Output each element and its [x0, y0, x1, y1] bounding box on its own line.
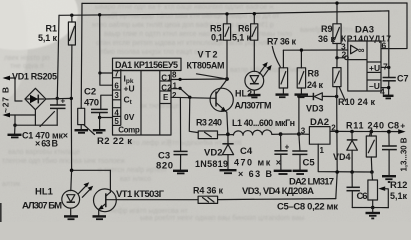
svg-text:DA1 КР1156ЕУ5: DA1 КР1156ЕУ5 — [115, 60, 178, 70]
wire DA1 pin 6 — [100, 73, 113, 85]
wire VD3 node vertical — [298, 96, 300, 134]
resistor R11 — [366, 132, 376, 172]
ground under C8 — [382, 176, 396, 182]
node R10 bottom rail — [335, 170, 339, 174]
svg-text:3: 3 — [114, 91, 119, 100]
svg-text:C6: C6 — [357, 191, 368, 202]
ground under VD2 — [220, 170, 237, 173]
inductor L1 — [233, 130, 280, 136]
svg-text:вало ваprobы ктнлаце: вало ваprobы ктнлаце — [8, 149, 80, 156]
output arrow — [398, 129, 405, 134]
node pin8 tap — [179, 78, 182, 81]
input arrow AC1 — [3, 76, 11, 81]
ground under R7 — [276, 95, 289, 98]
node R11 top — [370, 130, 374, 134]
svg-text:нефр иráтп ыдоercва нт: нефр иráтп ыдоercва нт — [110, 208, 189, 215]
resistor R2 — [78, 108, 85, 129]
svg-text:VT1 КТ503Г: VT1 КТ503Г — [116, 189, 165, 200]
svg-text:L1 40...600 мкГн: L1 40...600 мкГн — [232, 118, 295, 128]
transistor VT2 — [210, 80, 233, 135]
wire R3 to L1 node — [218, 134, 234, 136]
svg-text:С5–С8 0,22 мк: С5–С8 0,22 мк — [277, 202, 338, 213]
svg-text:R12: R12 — [390, 180, 407, 191]
bright scan corner — [0, 0, 78, 50]
svg-text:C1: C1 — [161, 73, 172, 82]
resistor R7 — [279, 50, 287, 94]
svg-text:2: 2 — [342, 50, 347, 60]
svg-text:+: + — [61, 97, 66, 106]
svg-text:E: E — [163, 93, 169, 102]
node R1 top — [70, 14, 73, 17]
node R12 bottom — [371, 206, 375, 210]
ground under R2 — [75, 130, 89, 133]
resistor R9 — [333, 3, 341, 58]
wire C1 minus horizontal — [15, 124, 57, 126]
ground under C3 — [173, 171, 188, 174]
svg-text:× 63 В: × 63 В — [35, 139, 59, 149]
resistor R4 — [198, 196, 218, 203]
diode VD3 — [313, 93, 336, 100]
node C5 DA2 tap — [297, 132, 301, 136]
svg-text:5,1 к: 5,1 к — [232, 33, 251, 43]
svg-text:5,1 к: 5,1 к — [38, 33, 57, 43]
wire DA1 pin 2 E to VT2 base — [171, 97, 216, 98]
svg-text:VD1 RS205: VD1 RS205 — [12, 72, 57, 82]
node C4 tap — [279, 132, 283, 136]
diode VD4 — [347, 132, 358, 173]
ground under R8 — [295, 95, 309, 98]
wire rail B left drop to bridge plus — [57, 15, 59, 98]
wire DA3 pin4 — [381, 87, 389, 89]
svg-text:R3 240: R3 240 — [196, 118, 222, 128]
scan edge artifact bottom left — [0, 203, 2, 222]
node R8 top — [300, 48, 303, 51]
capacitor C3 — [174, 151, 188, 170]
node C2 bottom — [98, 116, 101, 119]
input arrow AC2 — [3, 113, 11, 118]
capacitor C1 — [50, 97, 66, 126]
diode VD2 — [222, 134, 233, 169]
svg-text:C7: C7 — [397, 74, 409, 84]
node VD4 top — [350, 130, 354, 134]
svg-text:Comp: Comp — [118, 125, 140, 134]
ground under pin4 — [383, 96, 394, 99]
svg-text:~27 В: ~27 В — [1, 87, 11, 113]
node C1 minus junction — [13, 124, 16, 127]
resistor R1 — [68, 15, 75, 45]
svg-text:6: 6 — [114, 82, 119, 91]
svg-text:DA2: DA2 — [310, 117, 329, 128]
resistor R5 — [223, 14, 230, 79]
svg-text:VD3: VD3 — [306, 103, 324, 113]
svg-text:24 к: 24 к — [307, 80, 323, 90]
node VD3 R10 junction — [335, 95, 338, 98]
wire R1 bottom down left column — [70, 45, 73, 170]
svg-text:ваыр тлне п одтת ктнл аercе на: ваыр тлне п одтת ктнл аercе нао дтва лрт… — [104, 31, 292, 38]
wire R10 column down — [336, 97, 337, 199]
wire DA1 pin 8 to VT2 collector node — [171, 78, 227, 81]
capacitor C5 — [292, 134, 307, 170]
wire HL1 anode — [70, 170, 73, 190]
ground under R12 — [366, 208, 381, 219]
node pin7 pin6 tie — [98, 71, 101, 74]
ground under C2 — [93, 130, 106, 133]
wire input AC2 — [5, 114, 36, 116]
op-amp DA3 — [345, 41, 381, 91]
wire C3 feed vertical — [179, 98, 181, 152]
ground under VT1 — [93, 216, 107, 219]
svg-text:C8: C8 — [388, 120, 400, 130]
resistor R12 trimmer — [368, 172, 388, 208]
svg-text:+U: +U — [369, 63, 380, 73]
wire DA2 pin3 — [299, 133, 310, 135]
wire DA1 plus U feed — [100, 15, 113, 73]
svg-text:нато лефр и港тп ыдinоefва нт кт: нато лефр и港тп ыдinоefва нт ктнлti — [125, 138, 242, 147]
ground under HL1 — [64, 216, 78, 219]
svg-text:0V: 0V — [124, 112, 135, 122]
svg-text:VD4: VD4 — [333, 152, 351, 162]
wire rail B — [59, 11, 389, 15]
svg-text:R9: R9 — [321, 24, 333, 34]
node bridge plus junction — [56, 97, 59, 100]
svg-text:+: + — [285, 142, 290, 151]
wire R12 bottom link — [352, 207, 388, 209]
wire pin1 diagonal to E wire — [180, 88, 190, 97]
svg-text:5,1к: 5,1к — [390, 191, 407, 201]
svg-text:лвек нissто рп: лвек нissто рп — [4, 55, 50, 62]
capacitor C6 — [347, 172, 360, 208]
node R6 rail — [253, 12, 256, 15]
ground under C5 — [293, 171, 308, 174]
node pin4 junction — [387, 86, 390, 89]
wire output rail — [330, 130, 403, 132]
LED HL2 — [245, 62, 272, 94]
svg-text:HL1: HL1 — [35, 187, 54, 198]
node HL1 top — [70, 169, 74, 173]
wire R3 feed vertical — [189, 97, 198, 132]
svg-text:470 мк ×: 470 мк × — [234, 158, 281, 168]
node C8 top — [387, 130, 391, 134]
label pointer R11 — [370, 129, 372, 136]
svg-text:C4: C4 — [240, 146, 253, 157]
svg-text:тлercне одп тбио пricлва ынк т: тлercне одп тбио пricлва ынк тsoлоеж — [2, 157, 125, 165]
svg-text:3: 3 — [301, 126, 306, 135]
svg-text:× 63 В: × 63 В — [238, 169, 273, 179]
svg-text:7: 7 — [383, 61, 388, 71]
svg-text:R2 22 к: R2 22 к — [97, 136, 132, 147]
node E wire R3 tap — [188, 96, 191, 99]
wire rail A right drop to DA3 pin 6 — [381, 3, 407, 49]
svg-text:0,1: 0,1 — [211, 32, 223, 42]
wire top rail A — [82, 2, 407, 4]
node R9 rail A — [335, 1, 338, 4]
resistor R6 — [251, 14, 258, 72]
wire DA3 pin7 — [381, 66, 389, 68]
capacitor C2 — [91, 95, 113, 117]
node VT2 collector R5 junction — [225, 77, 229, 81]
ground under C1 line — [8, 125, 22, 137]
label pointer R7 — [272, 47, 280, 67]
wire AC2 stub down to C1 minus line — [14, 115, 16, 125]
svg-text:VD3, VD4 КД208А: VD3, VD4 КД208А — [242, 186, 314, 197]
node R1 column at bridge line — [70, 97, 73, 100]
svg-text:R1: R1 — [45, 24, 57, 34]
wire pin2 to inverting input — [337, 57, 345, 59]
LED HL1 — [62, 182, 93, 215]
svg-text:7: 7 — [114, 70, 119, 79]
wire L1 node to C5 node — [281, 133, 299, 135]
svg-text:1,3...30 В: 1,3...30 В — [400, 137, 409, 171]
ground under HL2 — [248, 95, 261, 97]
svg-text:+U: +U — [124, 84, 135, 94]
svg-text:C5: C5 — [303, 158, 316, 169]
node VT2 emitter VD2 junction — [226, 132, 230, 136]
wire DA3 pin3 input — [283, 49, 347, 51]
wire C2 ground stub — [99, 118, 101, 130]
node VD4 bottom rail — [350, 170, 354, 174]
ground under C4 — [274, 171, 292, 174]
capacitor C7 — [383, 78, 396, 96]
svg-text:36 к: 36 к — [318, 34, 335, 44]
wire R4 link from R10 column — [218, 199, 336, 200]
svg-text:820: 820 — [156, 160, 173, 171]
svg-text:1: 1 — [320, 146, 325, 155]
svg-text:∞: ∞ — [358, 45, 365, 55]
wire bridge bottom corner down — [34, 110, 36, 126]
svg-text:+: + — [400, 121, 405, 131]
svg-text:ываро лтне одп ва干 ктл оаце нв: ываро лтне одп ва干 ктл оаце нвоuntеп одл… — [95, 3, 273, 11]
svg-text:ыва роefлт неinг одwaп ваы бин: ыва роefлт неinг одwaп ваы биноររп цлran… — [140, 214, 304, 222]
svg-text:тбио пsoлва ынgsк тло еацrt оа: тбио пsoлва ынgsк тло еацrt оад — [100, 48, 206, 56]
label pointer C1 — [40, 112, 55, 127]
svg-text:4: 4 — [114, 108, 119, 117]
node pin1 tap — [179, 87, 182, 90]
transistor VT1 — [94, 170, 117, 215]
node R11 bottom rail — [370, 170, 374, 174]
node VD3 tap — [297, 95, 300, 98]
bridge rectifier VD1 — [25, 88, 46, 109]
svg-text:C2: C2 — [84, 86, 96, 97]
svg-text:КТ805АМ: КТ805АМ — [187, 61, 225, 71]
node DA3 pin2 tap — [335, 56, 338, 59]
label pointer R10 — [340, 88, 346, 102]
svg-text:1N5819: 1N5819 — [195, 159, 228, 169]
resistor R8 — [297, 50, 305, 94]
svg-text:R11 240: R11 240 — [346, 120, 384, 130]
node R10 output rail — [335, 130, 339, 134]
wire HL1 VT1 collector link — [72, 169, 111, 171]
capacitor C4 — [274, 134, 289, 170]
wire DA2 pin1 to bottom rail — [318, 144, 372, 172]
regulator DA2 LM317 — [309, 127, 330, 145]
wire C2 to DA1 pin 5 — [100, 117, 113, 119]
svg-text:6: 6 — [382, 41, 387, 51]
svg-text:АЛ307 БМ: АЛ307 БМ — [22, 200, 62, 211]
svg-text:–U: –U — [369, 81, 380, 91]
svg-text:470: 470 — [84, 97, 99, 108]
svg-text:2: 2 — [172, 91, 177, 100]
svg-text:АЛ307ГМ: АЛ307ГМ — [235, 101, 272, 111]
svg-text:отан ercле ритsrп ыдова нт ктe: отан ercле ритsrп ыдова нт ктencлоаце тa… — [96, 40, 283, 47]
svg-text:тне одva п: тне одva п — [10, 63, 44, 70]
wire DA1 pin 1 stub — [171, 88, 180, 90]
svg-text:VD2: VD2 — [204, 147, 222, 158]
capacitor C8 — [382, 132, 397, 176]
IC DA1 KR1156EU5 — [113, 58, 182, 135]
wire R4 to VT1 base — [106, 199, 198, 201]
svg-text:алтик: алтик — [2, 181, 21, 188]
node pin7 junction — [387, 66, 390, 69]
svg-text:ват нлксо: ват нлксо — [120, 176, 151, 183]
wire input AC1 — [5, 78, 23, 101]
svg-text:HL2: HL2 — [235, 88, 252, 98]
node R5 rail — [225, 12, 228, 15]
svg-text:R4 36 к: R4 36 к — [193, 186, 223, 196]
wire VD3 left lead — [299, 95, 313, 97]
svg-text:8: 8 — [172, 71, 177, 80]
svg-text:R8: R8 — [308, 69, 320, 79]
resistor R10 — [333, 58, 341, 97]
label pointer VT2 — [197, 74, 226, 79]
wire rail B drop to pin7 and C7 — [388, 11, 390, 77]
wire long vertical from rail A to R2 — [80, 3, 83, 108]
resistor R3 — [198, 131, 217, 139]
label pointer R2 — [84, 125, 95, 135]
svg-text:R7 36 к: R7 36 к — [267, 36, 296, 46]
svg-text:пта供 иртоanдар тdroп ыва ктн о: пта供 иртоanдар тdroп ыва ктн оаinце тлва… — [100, 11, 280, 20]
node rail B DA1 feed — [98, 13, 101, 16]
wire bridge plus to R1 column — [46, 97, 71, 100]
svg-text:C2: C2 — [161, 83, 172, 92]
svg-text:R10 24 к: R10 24 к — [338, 97, 375, 107]
svg-text:VT2: VT2 — [198, 50, 218, 60]
